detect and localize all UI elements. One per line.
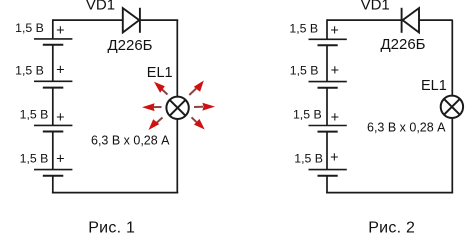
wire: bottom rail (left circuit)	[52, 192, 178, 194]
battery cell G8 short plate (-)	[318, 175, 338, 177]
battery cell G1 long plate (+)	[34, 38, 72, 40]
light ray arrow up-left	[154, 82, 168, 95]
wire: between cell G7 and G8	[326, 132, 328, 170]
light ray arrow up-right	[189, 81, 204, 96]
svg-text:EL1: EL1	[147, 65, 173, 81]
svg-text:+: +	[56, 23, 64, 39]
svg-text:Д226Б: Д226Б	[380, 36, 425, 53]
svg-text:6,3 В x 0,28 А: 6,3 В x 0,28 А	[367, 120, 446, 134]
svg-text:1,5 В: 1,5 В	[290, 64, 319, 78]
battery cell G4 long plate (+)	[34, 169, 72, 171]
battery cell G4 short plate (-)	[43, 175, 64, 177]
wire: right branch above lamp (left circuit)	[176, 20, 178, 97]
battery cell G3 short plate (-)	[43, 131, 64, 133]
svg-text:VD1: VD1	[361, 0, 390, 14]
wire: between cell G3 and G4	[52, 132, 54, 170]
svg-text:+: +	[330, 150, 338, 166]
svg-text:Д226Б: Д226Б	[107, 37, 152, 54]
svg-text:+: +	[56, 151, 64, 167]
svg-text:1,5 В: 1,5 В	[15, 21, 44, 35]
battery cell G2 short plate (-)	[43, 87, 64, 89]
battery cell G2 long plate (+)	[34, 80, 72, 82]
battery cell G5 long plate (+)	[309, 38, 347, 40]
svg-text:+: +	[330, 23, 338, 39]
wire: top rail left segment (battery + to diode cathode)	[327, 19, 402, 21]
battery cell G6 long plate (+)	[309, 81, 347, 83]
lamp EL1 (right, unlit)	[441, 96, 463, 118]
wire: right branch below lamp (right circuit)	[451, 118, 453, 194]
svg-text:VD1: VD1	[86, 0, 115, 14]
svg-text:1,5 В: 1,5 В	[289, 21, 318, 35]
wire: top rail right segment (diode anode to lamp branch)	[419, 19, 453, 21]
svg-text:1,5 В: 1,5 В	[20, 152, 49, 166]
svg-text:1,5 В: 1,5 В	[294, 152, 323, 166]
svg-text:1,5 В: 1,5 В	[20, 108, 49, 122]
wire: between cell G5 and G6	[326, 45, 328, 81]
svg-text:+: +	[331, 63, 339, 79]
battery cell G8 long plate (+)	[309, 169, 347, 171]
battery cell G6 short plate (-)	[318, 87, 338, 89]
wire: left column top segment (right circuit)	[326, 19, 328, 39]
battery cell G7 short plate (-)	[318, 131, 338, 133]
diode VD1 (right, reversed), cathode left / anode right	[402, 8, 419, 33]
lamp EL1 (left, lit)	[166, 97, 188, 119]
wire: between cell G2 and G3	[52, 88, 54, 126]
wire: left column bottom segment	[52, 176, 54, 194]
svg-text:6,3 В x 0,28 А: 6,3 В x 0,28 А	[91, 134, 170, 148]
wire: right branch below lamp (left circuit)	[176, 119, 178, 194]
svg-text:Рис. 1: Рис. 1	[88, 220, 135, 237]
light ray arrow right	[194, 103, 215, 111]
svg-text:EL1: EL1	[421, 78, 447, 94]
wire: left column bottom segment (right circuit)	[326, 176, 328, 194]
wire: left column top segment	[52, 19, 54, 39]
wire: bottom rail (right circuit)	[326, 192, 453, 194]
light ray arrow down-right	[192, 117, 205, 129]
battery cell G7 long plate (+)	[309, 125, 347, 127]
battery cell G5 short plate (-)	[318, 44, 338, 46]
wire: top rail right segment (diode cathode to lamp branch)	[140, 19, 178, 21]
light ray arrow down-left	[149, 118, 163, 131]
wire: top rail left segment (battery + to diode anode)	[53, 19, 123, 21]
svg-text:+: +	[56, 63, 64, 79]
svg-text:1,5 В: 1,5 В	[15, 63, 44, 77]
battery cell G3 long plate (+)	[34, 124, 72, 126]
wire: right branch above lamp (right circuit)	[451, 20, 453, 96]
wire: between cell G1 and G2	[52, 45, 54, 82]
svg-text:+: +	[331, 110, 339, 126]
svg-text:1,5 В: 1,5 В	[293, 108, 322, 122]
svg-text:+: +	[56, 110, 64, 126]
svg-text:Рис. 2: Рис. 2	[368, 220, 415, 237]
wire: between cell G6 and G7	[326, 88, 328, 126]
light ray arrow left	[142, 103, 162, 111]
diode VD1 (left), anode left / cathode right	[123, 8, 140, 33]
battery cell G1 short plate (-)	[43, 44, 64, 46]
